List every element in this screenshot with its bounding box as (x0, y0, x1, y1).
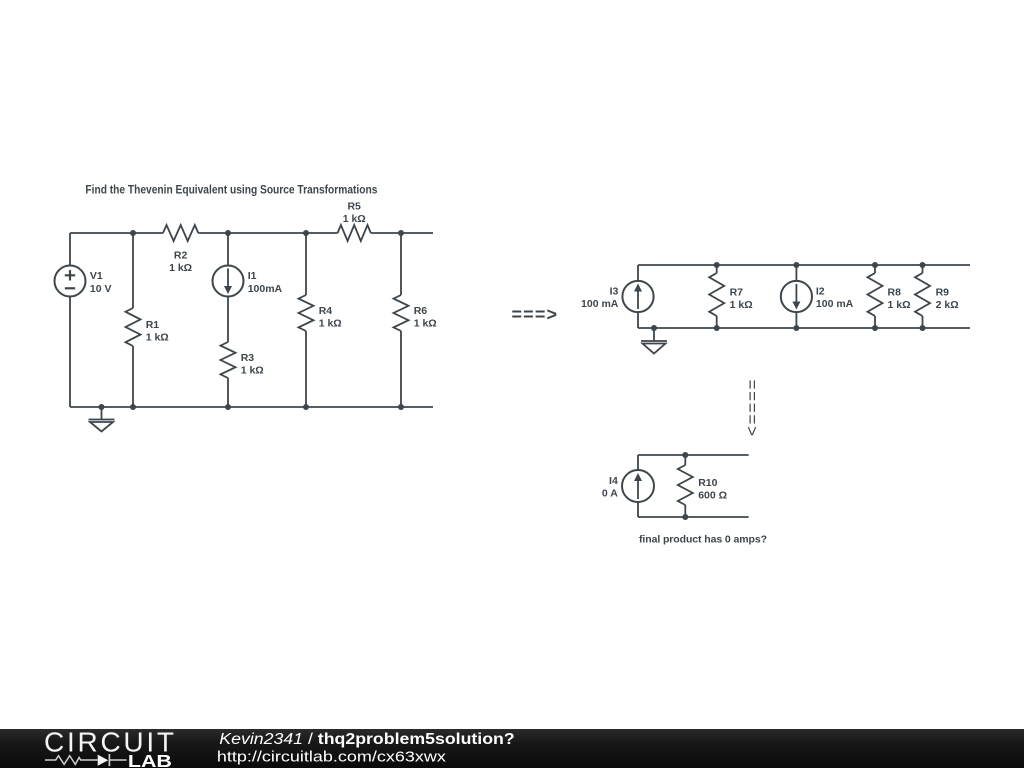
svg-text:I4: I4 (609, 475, 618, 487)
node I2 bottom (793, 325, 799, 331)
svg-text:1 kΩ: 1 kΩ (888, 299, 911, 311)
svg-text:10 V: 10 V (90, 283, 112, 295)
resistor R5 (338, 225, 371, 241)
resistor R4 (299, 295, 314, 331)
svg-text:R1: R1 (146, 319, 160, 331)
logo resistor symbol (45, 756, 98, 765)
node I2 top (793, 262, 799, 268)
node R8 top (872, 262, 878, 268)
svg-text:====>: ====> (743, 380, 762, 437)
node R7 bottom (714, 325, 720, 331)
svg-text:final product has 0 amps?: final product has 0 amps? (639, 534, 767, 546)
svg-text:LAB: LAB (128, 751, 172, 768)
svg-text:0 A: 0 A (602, 488, 618, 500)
voltage source V1 (55, 266, 86, 297)
wire: I1/R3 branch (227, 233, 229, 407)
svg-text:100 mA: 100 mA (816, 298, 854, 310)
wire: R8 branch (874, 265, 876, 328)
svg-text:R6: R6 (414, 305, 428, 317)
wire: I4 branch (637, 455, 639, 517)
node dots circuit 3 (682, 452, 688, 520)
svg-text:1 kΩ: 1 kΩ (241, 364, 264, 376)
svg-text:===>: ===> (512, 305, 558, 325)
resistor R3 (221, 342, 236, 378)
node R1 bottom (130, 404, 136, 410)
node R4 top (303, 230, 309, 236)
svg-text:I2: I2 (816, 286, 825, 298)
svg-text:R8: R8 (888, 286, 902, 298)
footer bar (0, 729, 1024, 768)
svg-text:1 kΩ: 1 kΩ (319, 317, 342, 329)
node R9 top (920, 262, 926, 268)
node ground tap 2 (651, 325, 657, 331)
ground (circuit 2) (641, 328, 667, 354)
logo wire to LAB (110, 759, 127, 761)
wire: circuit 1 top rail (70, 232, 433, 234)
wire: I2 branch (795, 265, 797, 328)
node R10 top (682, 452, 688, 458)
svg-text:1 kΩ: 1 kΩ (169, 262, 192, 274)
resistor R7 (709, 273, 724, 316)
resistor R1 (126, 308, 141, 346)
svg-text:Kevin2341 / thq2problem5soluti: Kevin2341 / thq2problem5solution? (219, 731, 514, 748)
logo diode symbol (98, 755, 109, 766)
wire: R1 branch (132, 233, 134, 407)
node dots circuit 1 (99, 230, 405, 410)
svg-text:R2: R2 (174, 250, 188, 262)
node I1 top (225, 230, 231, 236)
node R1 top (130, 230, 136, 236)
current source I4 (622, 470, 654, 502)
svg-text:R10: R10 (698, 477, 717, 489)
svg-text:http://circuitlab.com/cx63xwx: http://circuitlab.com/cx63xwx (217, 748, 447, 765)
wire: circuit 2 bottom rail (638, 327, 970, 329)
resistor R10 (678, 465, 693, 505)
wire: R4 branch (305, 233, 307, 407)
svg-text:1 kΩ: 1 kΩ (343, 213, 366, 225)
resistor R8 (868, 273, 883, 316)
node R4 bottom (303, 404, 309, 410)
wire: I3 branch (637, 265, 639, 328)
svg-text:2 kΩ: 2 kΩ (936, 299, 959, 311)
svg-text:R7: R7 (730, 286, 744, 298)
svg-text:100 mA: 100 mA (581, 298, 619, 310)
wire: V1 left branch (69, 233, 71, 407)
svg-text:R5: R5 (347, 201, 361, 213)
svg-text:100mA: 100mA (248, 283, 283, 295)
resistor R2 (163, 225, 198, 241)
wire: R6 branch (400, 233, 402, 407)
node R3 bottom (225, 404, 231, 410)
wire: circuit 3 bottom rail (638, 516, 749, 518)
current source I1 (213, 266, 244, 297)
resistor R6 (394, 295, 409, 331)
resistor R9 (915, 273, 930, 316)
wire: R10 branch (684, 455, 686, 517)
node dots circuit 2 (651, 262, 926, 331)
svg-text:V1: V1 (90, 270, 103, 282)
svg-text:1 kΩ: 1 kΩ (146, 331, 169, 343)
svg-text:I1: I1 (248, 270, 257, 282)
svg-text:R9: R9 (936, 286, 950, 298)
ground (circuit 1) (89, 407, 115, 432)
svg-text:I3: I3 (610, 286, 619, 298)
node R10 bottom (682, 514, 688, 520)
node R7 top (714, 262, 720, 268)
current source I2 (781, 281, 812, 312)
node R9 bottom (920, 325, 926, 331)
wire: R7 branch (716, 265, 718, 328)
svg-text:1 kΩ: 1 kΩ (414, 317, 437, 329)
wire: circuit 2 top rail (638, 264, 970, 266)
svg-text:1 kΩ: 1 kΩ (730, 299, 753, 311)
node R6 bottom (398, 404, 404, 410)
node ground tap (99, 404, 105, 410)
node R8 bottom (872, 325, 878, 331)
svg-text:R3: R3 (241, 352, 255, 364)
svg-text:600 Ω: 600 Ω (698, 489, 727, 501)
wire: circuit 1 bottom rail (70, 406, 433, 408)
svg-text:R4: R4 (319, 305, 333, 317)
svg-text:Find the Thevenin Equivalent u: Find the Thevenin Equivalent using Sourc… (85, 183, 377, 197)
wire: circuit 3 top rail (638, 454, 749, 456)
wire: R9 branch (922, 265, 924, 328)
node R6 top (398, 230, 404, 236)
current source I3 (622, 281, 653, 312)
